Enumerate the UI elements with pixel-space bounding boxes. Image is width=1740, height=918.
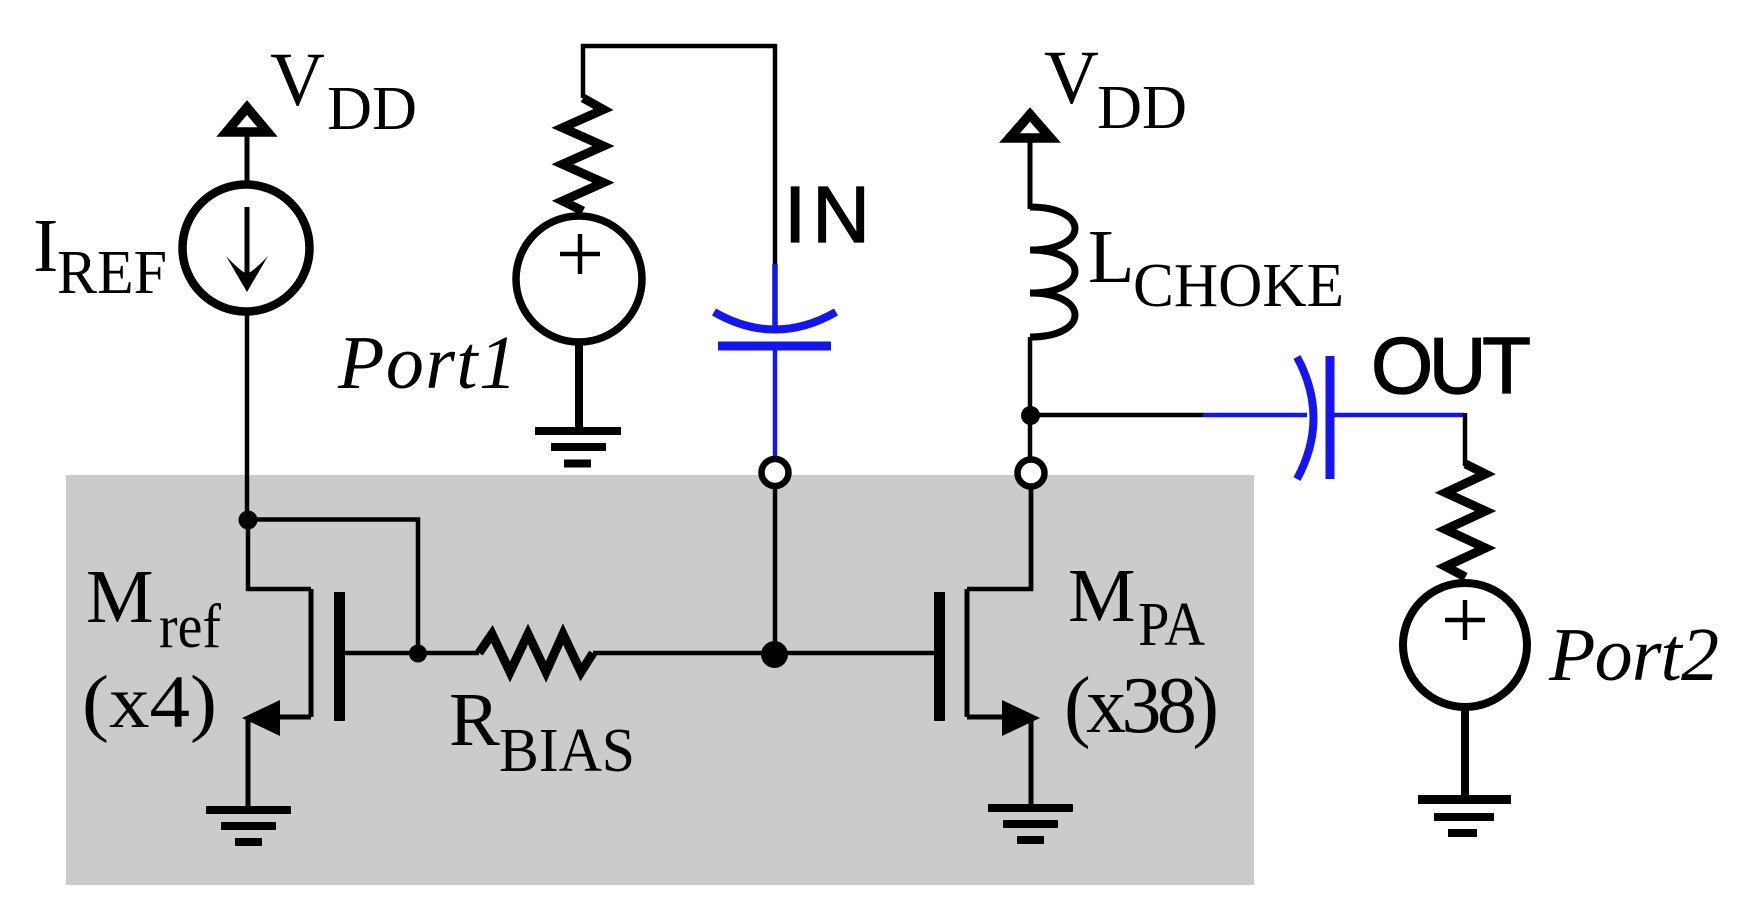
svg-text:DD: DD (327, 75, 417, 143)
wire OUT to Port2 resistor (1463, 413, 1468, 466)
svg-text:REF: REF (57, 239, 167, 307)
node dot output (1021, 406, 1040, 425)
wire LCHOKE to drain terminal (1028, 337, 1033, 457)
supply VDD left (227, 108, 268, 189)
svg-text:BIAS: BIAS (499, 717, 635, 785)
label RBIAS (449, 678, 635, 785)
resistor Port1 series (563, 98, 604, 211)
source Port1 (516, 216, 642, 342)
ground Port1 (535, 427, 621, 468)
svg-text:OUT: OUT (1371, 321, 1531, 410)
svg-text:I: I (33, 204, 58, 288)
svg-text:Port1: Port1 (337, 321, 517, 405)
capacitor OUT blue (1203, 356, 1464, 479)
svg-text:PA: PA (1138, 591, 1205, 659)
svg-text:(x4): (x4) (82, 661, 217, 744)
resistor RBIAS (479, 634, 593, 672)
wire RBIAS to center node (593, 651, 776, 656)
capacitor IN blue (714, 264, 836, 458)
label VDD right (1044, 36, 1187, 142)
wire top bias feed (583, 46, 775, 266)
svg-text:IN: IN (784, 170, 870, 259)
current source IREF (183, 185, 310, 312)
terminal IN (762, 459, 789, 486)
node dot center (761, 641, 788, 668)
svg-text:M: M (1068, 554, 1136, 638)
wire node to Mref drain (248, 519, 311, 589)
transistor Mref (242, 589, 420, 806)
label VDD left (270, 38, 417, 143)
wire terminal to MPA drain (1029, 489, 1034, 591)
wire IN terminal to gate line (773, 489, 778, 653)
label IREF (33, 204, 167, 307)
svg-text:L: L (1088, 215, 1134, 299)
ground MPA (988, 804, 1073, 844)
label Mref (86, 555, 221, 661)
ground Mref (206, 806, 291, 846)
wire gate node to RBIAS (418, 651, 479, 656)
inductor LCHOKE (1030, 207, 1075, 337)
svg-text:R: R (449, 678, 500, 762)
source Port2 (1403, 583, 1527, 707)
svg-text:(x38): (x38) (1064, 662, 1219, 750)
node dot mirror (239, 511, 258, 530)
terminal MPA drain (1018, 460, 1045, 487)
ground Port2 (1418, 795, 1511, 837)
svg-text:ref: ref (159, 593, 221, 661)
svg-text:DD: DD (1097, 74, 1187, 142)
svg-text:CHOKE: CHOKE (1133, 252, 1344, 320)
wire center node to MPA gate (776, 651, 934, 656)
label MPA (1068, 554, 1205, 659)
supply VDD right (1010, 115, 1051, 210)
svg-text:V: V (270, 38, 325, 122)
chip boundary shaded region (66, 475, 1254, 885)
svg-text:Port2: Port2 (1548, 613, 1719, 697)
wire IREF to mirror node (245, 310, 250, 519)
wire output node to coupling cap (1030, 413, 1203, 418)
wire node to gate corner (248, 520, 418, 654)
wire Port2 to ground (1461, 707, 1469, 795)
wire Port1 to ground (575, 342, 583, 428)
svg-text:M: M (86, 555, 154, 639)
label LCHOKE (1088, 215, 1344, 320)
svg-text:V: V (1044, 36, 1099, 120)
resistor Port2 series (1446, 464, 1486, 577)
node dot Mref gate (409, 645, 427, 663)
transistor MPA (934, 490, 1040, 804)
